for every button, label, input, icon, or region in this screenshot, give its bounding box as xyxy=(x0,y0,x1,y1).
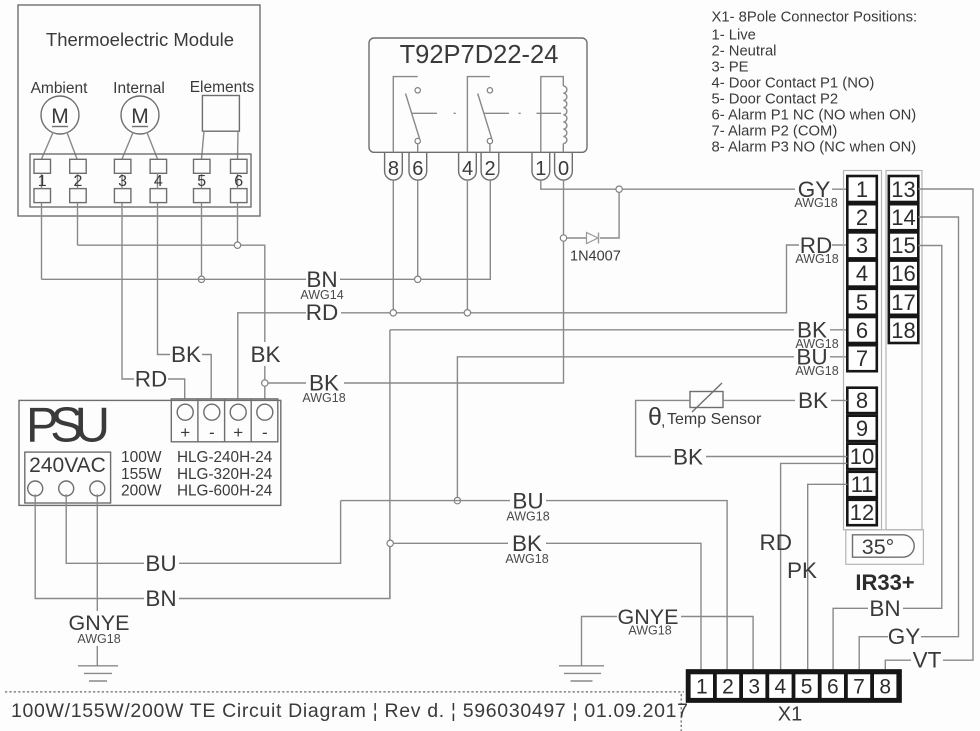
relay pin 0 xyxy=(555,152,573,180)
svg-text:7- Alarm P2 (COM): 7- Alarm P2 (COM) xyxy=(712,123,838,139)
svg-text:155W: 155W xyxy=(121,466,162,483)
svg-text:BK: BK xyxy=(798,388,828,413)
svg-text:BK: BK xyxy=(250,342,280,367)
IR33 terminal 5 xyxy=(847,289,877,315)
svg-text:7: 7 xyxy=(856,346,868,371)
svg-text:8- Alarm P3 NO (NC when ON): 8- Alarm P3 NO (NC when ON) xyxy=(712,139,917,155)
svg-text:RD: RD xyxy=(135,367,168,392)
wire diode branch xyxy=(567,192,619,238)
svg-text:HLG-240H-24: HLG-240H-24 xyxy=(177,449,273,466)
IR33 terminal 8 xyxy=(847,388,877,413)
svg-text:IR33+: IR33+ xyxy=(855,570,914,595)
svg-text:X1: X1 xyxy=(778,704,802,726)
wire PSU4 column lower segment xyxy=(264,366,266,399)
wire term14 to GY to X1 pin7 xyxy=(859,217,958,669)
ground symbol left xyxy=(78,666,118,681)
svg-text:7: 7 xyxy=(853,676,865,699)
wire RD label to PSU pin1 xyxy=(168,379,185,399)
IR33 terminal 7 xyxy=(847,345,877,371)
svg-text:4: 4 xyxy=(856,261,868,286)
svg-text:M: M xyxy=(131,105,149,128)
relay pin 4 xyxy=(459,152,477,180)
svg-text:AWG18: AWG18 xyxy=(77,632,120,646)
svg-text:6: 6 xyxy=(827,676,839,699)
IR33 terminal 14 xyxy=(889,204,919,230)
svg-text:240VAC: 240VAC xyxy=(29,454,106,477)
svg-text:12: 12 xyxy=(850,500,874,525)
wire PSU L down BN xyxy=(35,494,390,598)
svg-text:1: 1 xyxy=(535,158,546,180)
wire net RD xyxy=(238,245,847,399)
svg-text:18: 18 xyxy=(891,318,915,343)
svg-text:BK: BK xyxy=(171,342,201,367)
wire term15 to BN to X1 pin6 xyxy=(833,246,942,670)
svg-text:35°: 35° xyxy=(862,535,895,559)
svg-text:1: 1 xyxy=(696,676,708,699)
wire term11 PK to X1 pin5 xyxy=(808,484,848,669)
svg-text:15: 15 xyxy=(891,233,915,258)
svg-text:100W: 100W xyxy=(121,449,162,466)
IR33 controller outline left column xyxy=(844,171,882,530)
motor M2 Internal xyxy=(121,96,159,134)
svg-text:AWG18: AWG18 xyxy=(795,364,838,378)
wire elements to terminals 5,6 xyxy=(202,131,239,159)
svg-text:14: 14 xyxy=(891,205,915,230)
X1 connector body xyxy=(689,672,900,700)
junction diode top xyxy=(616,186,622,192)
svg-text:4: 4 xyxy=(154,173,163,190)
PSU model table xyxy=(121,449,273,500)
svg-text:3: 3 xyxy=(856,233,868,258)
svg-text:6- Alarm P1 NC (NO when ON): 6- Alarm P1 NC (NO when ON) xyxy=(712,107,917,123)
X1 pin 3 xyxy=(743,674,765,698)
PSU DC terminal strip xyxy=(171,399,277,442)
svg-text:HLG-600H-24: HLG-600H-24 xyxy=(177,483,273,500)
thermistor RT1 xyxy=(690,383,723,412)
IR33 terminal 6 xyxy=(847,317,877,343)
wire net BK AWG18 to relay pin0 xyxy=(268,180,564,383)
wire M2 to terminals 3,4 xyxy=(122,133,158,160)
svg-text:3: 3 xyxy=(748,676,760,699)
wire GNYE right to X1 pin3 xyxy=(582,617,754,670)
svg-text:AWG18: AWG18 xyxy=(506,510,549,524)
svg-text:8: 8 xyxy=(879,676,891,699)
X1 pin 2 xyxy=(717,674,739,698)
svg-text:200W: 200W xyxy=(121,483,162,500)
wire M1 to terminals 1,2 xyxy=(42,133,78,160)
svg-text:-: - xyxy=(262,423,268,442)
svg-text:-: - xyxy=(209,423,215,442)
svg-text:100W/155W/200W TE Circuit Diag: 100W/155W/200W TE Circuit Diagram ¦ Rev … xyxy=(11,700,688,722)
svg-text:X1- 8Pole Connector Positions:: X1- 8Pole Connector Positions: xyxy=(712,10,918,26)
wire term10 RD to X1 pin4 xyxy=(781,463,848,669)
X1 pin 8 xyxy=(874,674,896,698)
X1 pin 1 xyxy=(691,674,713,698)
junction BK AWG18 tap xyxy=(262,380,268,386)
svg-text:3- PE: 3- PE xyxy=(712,60,749,76)
TE terminal 3 xyxy=(114,159,130,202)
IR33 terminal 17 xyxy=(889,289,919,315)
junction relay6/BN xyxy=(415,276,421,282)
IR33 terminal 16 xyxy=(889,261,919,287)
wire relay pin8 down to RD xyxy=(392,180,394,310)
svg-text:RD: RD xyxy=(760,530,793,555)
svg-text:8: 8 xyxy=(856,388,868,413)
TE terminal 2 xyxy=(70,159,87,202)
svg-text:M: M xyxy=(51,105,69,128)
relay contact switch 2 xyxy=(467,77,492,153)
svg-text:2: 2 xyxy=(484,158,495,180)
wire BK AWG18 to IR33 term6 xyxy=(390,329,847,331)
caption separator dotted xyxy=(5,692,684,731)
TE terminal strip xyxy=(30,154,251,207)
wire term13 to VT to X1 pin8 xyxy=(885,189,973,669)
svg-text:9: 9 xyxy=(856,416,868,441)
TE terminal 4 xyxy=(150,159,167,202)
svg-text:1N4007: 1N4007 xyxy=(570,249,621,265)
wire TE2 down xyxy=(77,203,79,246)
thermoelectric module box xyxy=(18,5,260,216)
svg-text:+: + xyxy=(233,423,243,442)
svg-text:8: 8 xyxy=(388,158,399,180)
svg-text:6: 6 xyxy=(412,158,423,180)
relay actuator link 2 xyxy=(484,112,521,114)
X1 pin 5 xyxy=(795,674,817,698)
svg-text:T92P7D22-24: T92P7D22-24 xyxy=(400,41,559,69)
svg-text:BN: BN xyxy=(869,596,900,621)
svg-text:1: 1 xyxy=(38,173,47,190)
TE terminal 6 xyxy=(231,159,248,202)
svg-text:Thermoelectric Module: Thermoelectric Module xyxy=(46,29,234,50)
diode D1 1N4007 xyxy=(570,233,621,265)
IR33 terminal 2 xyxy=(847,204,877,230)
relay pin 6 xyxy=(409,152,427,180)
IR33 terminal 12 xyxy=(847,500,877,525)
PSU 240VAC input block xyxy=(25,452,111,503)
relay pin 8 xyxy=(385,152,403,180)
wire relay pin6 down to BN xyxy=(417,180,419,276)
wire PSU PE down xyxy=(96,494,98,666)
relay pin 1 xyxy=(532,152,550,180)
IR33 terminal 10 xyxy=(847,444,877,469)
svg-text:PK: PK xyxy=(787,558,817,583)
svg-text:AWG18: AWG18 xyxy=(795,252,838,266)
junction TE6/TE2 xyxy=(234,242,240,248)
wire thermistor left to BK to IR33 term10 xyxy=(636,400,848,456)
svg-text:10: 10 xyxy=(850,444,874,469)
svg-text:4- Door Contact P1 (NO): 4- Door Contact P1 (NO) xyxy=(712,76,875,92)
svg-text:+: + xyxy=(180,423,190,442)
svg-text:6: 6 xyxy=(856,318,868,343)
svg-text:BU: BU xyxy=(145,551,176,576)
svg-text:5: 5 xyxy=(197,173,206,190)
wire relay pin4 down to RD xyxy=(466,180,468,310)
svg-text:BN: BN xyxy=(145,586,176,611)
svg-text:VT: VT xyxy=(913,648,942,673)
IR33 terminal 15 xyxy=(889,232,919,258)
svg-text:5: 5 xyxy=(801,676,813,699)
IR33 terminal 18 xyxy=(889,317,919,343)
svg-text:5: 5 xyxy=(856,290,868,315)
svg-text:BK: BK xyxy=(673,445,703,470)
svg-text:17: 17 xyxy=(891,290,915,315)
wire TE2-TE6 joint to PSU4 column xyxy=(78,245,265,342)
setpoint badge 35 xyxy=(846,530,924,565)
PSU box xyxy=(19,399,281,506)
junction relay8/RD xyxy=(390,310,396,316)
svg-text:θ: θ xyxy=(648,403,662,431)
wire GY relay pin1 to IR33 term1 xyxy=(541,180,847,189)
svg-text:2: 2 xyxy=(74,173,83,190)
wire TE6 down xyxy=(237,203,239,246)
svg-text:AWG18: AWG18 xyxy=(794,196,837,210)
svg-text:AWG18: AWG18 xyxy=(628,624,671,638)
svg-text:4: 4 xyxy=(775,676,787,699)
svg-text:,: , xyxy=(661,413,665,430)
TE terminal 5 xyxy=(194,159,211,202)
svg-text:HLG-320H-24: HLG-320H-24 xyxy=(177,466,273,483)
svg-text:PSU: PSU xyxy=(26,399,110,453)
svg-text:AWG18: AWG18 xyxy=(505,552,548,566)
svg-text:0: 0 xyxy=(558,158,569,180)
X1 pin 6 xyxy=(822,674,844,698)
relay pin 2 xyxy=(481,152,499,180)
svg-text:5- Door Contact P2: 5- Door Contact P2 xyxy=(712,91,839,107)
IR33 terminal 9 xyxy=(847,416,877,441)
IR33 terminal 4 xyxy=(847,261,877,287)
svg-text:Temp Sensor: Temp Sensor xyxy=(667,411,762,428)
junction diode to relay pin0 column xyxy=(560,235,566,241)
svg-text:Ambient: Ambient xyxy=(31,80,89,97)
X1 pin 7 xyxy=(848,674,870,698)
wire TE3 down to RD label xyxy=(122,203,134,379)
TE terminal 1 xyxy=(34,159,51,202)
junction relay4/RD xyxy=(464,310,470,316)
svg-text:16: 16 xyxy=(891,261,915,286)
IR33 terminal 1 xyxy=(847,176,877,202)
ground symbol right xyxy=(559,666,604,681)
svg-text:2- Neutral: 2- Neutral xyxy=(712,44,777,60)
junction TE5/BN xyxy=(198,276,204,282)
svg-text:6: 6 xyxy=(234,173,243,190)
note X1 connector positions xyxy=(712,10,918,156)
svg-text:4: 4 xyxy=(462,158,473,180)
svg-text:1: 1 xyxy=(856,177,868,202)
wire BU branch to IR33 term7 xyxy=(457,357,847,498)
svg-text:GY: GY xyxy=(888,624,921,649)
junction live net xyxy=(387,540,393,546)
wire BU AWG18 to X1 pin2 xyxy=(341,501,727,670)
relay contact switch 1 xyxy=(393,77,420,153)
wire live net vertical x390 xyxy=(389,330,391,599)
motor M1 Ambient xyxy=(41,96,79,134)
svg-text:Internal: Internal xyxy=(113,80,165,97)
IR33 terminal 11 xyxy=(847,472,877,497)
wire TE5 down xyxy=(201,203,203,280)
wire BK label to PSU pin2 xyxy=(202,355,211,400)
wire TE4 down to BK label xyxy=(158,203,171,355)
relay coil xyxy=(537,77,567,153)
heating elements block xyxy=(202,96,239,132)
IR33 controller outline right column xyxy=(886,171,922,530)
svg-text:AWG18: AWG18 xyxy=(302,391,345,405)
svg-text:13: 13 xyxy=(891,177,915,202)
wire thermistor right BK to IR33 term8 xyxy=(723,399,847,401)
svg-text:11: 11 xyxy=(851,472,874,497)
svg-text:RD: RD xyxy=(306,300,339,325)
wire TE1 down to BN xyxy=(41,203,43,280)
wire net BN left xyxy=(42,180,491,279)
svg-text:Elements: Elements xyxy=(190,79,255,96)
wire PSU N down BU xyxy=(66,494,340,563)
X1 pin 4 xyxy=(769,674,791,698)
svg-text:2: 2 xyxy=(722,676,734,699)
junction BU branch xyxy=(454,497,460,503)
IR33 terminal 13 xyxy=(889,176,919,202)
relay actuator link 1 xyxy=(412,112,456,114)
wire BK live to X1 pin1 xyxy=(393,543,701,669)
svg-text:3: 3 xyxy=(118,173,127,190)
IR33 terminal 3 xyxy=(847,232,877,258)
relay K1 T92P7D22-24 box xyxy=(369,38,587,152)
svg-text:2: 2 xyxy=(856,205,868,230)
svg-text:1- Live: 1- Live xyxy=(712,28,756,44)
